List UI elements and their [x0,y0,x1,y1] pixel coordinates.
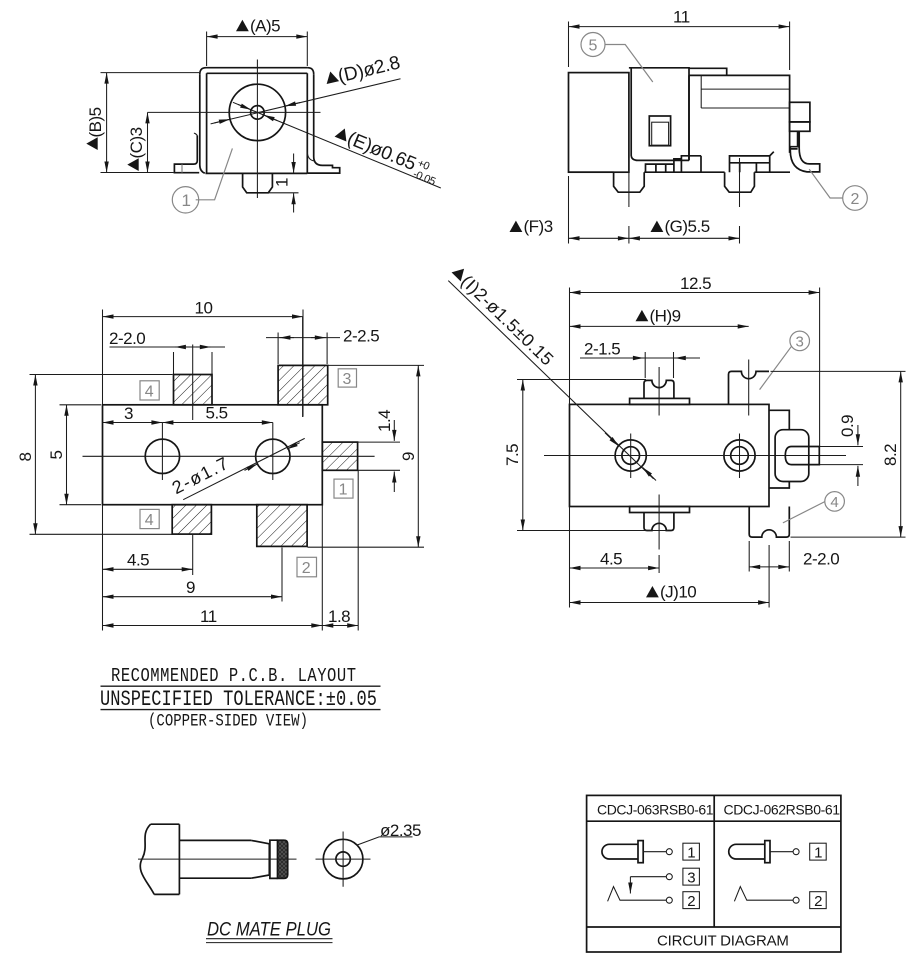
pin length dim arrows [293,154,295,174]
svg-text:UNSPECIFIED TOLERANCE:±0.05: UNSPECIFIED TOLERANCE:±0.05 [100,687,377,712]
VIEW A: front view [86,17,442,214]
right foot centerline [739,158,741,207]
hole right [256,439,290,473]
TABLE: circuit diagram [587,795,841,952]
shell top-left corner [200,68,206,75]
dim 3 line [103,422,163,424]
plug end view crosshair [316,832,371,887]
balloon 4 [825,492,845,512]
dim 11 line [569,26,790,28]
dim 5 line [66,405,68,505]
left flange [174,136,199,173]
leader I label [448,262,558,370]
switch lever [608,887,667,902]
svg-text:2: 2 [814,893,822,910]
svg-text:1: 1 [339,482,348,499]
dim 8.2 ext lines [771,371,906,537]
balloon 5 [581,33,605,57]
dim 7.5 line [522,380,524,531]
svg-text:(J)10: (J)10 [660,583,696,602]
hole left [145,439,179,473]
dim F line [569,237,629,239]
dim 12.5 line [570,292,820,294]
dim A label [236,20,249,31]
VIEW E: dc mate plug [138,821,421,943]
svg-text:2: 2 [851,191,860,208]
svg-text:4: 4 [145,512,154,529]
table footer separator [587,926,841,928]
right terminal 2 circle [793,897,799,903]
dim 7.5 ext lines [517,380,668,531]
dim 2-2.0 line [110,346,226,348]
right metal block [689,75,790,160]
svg-text:CDCJ-063RSB0-61: CDCJ-063RSB0-61 [597,802,714,818]
svg-text:(F)3: (F)3 [524,217,553,236]
left flange top cut [194,133,197,135]
balloon 3 leader [760,346,792,389]
dim 10 line [103,316,304,318]
VIEW D: bottom view [448,262,906,607]
svg-text:5: 5 [47,451,66,460]
left metal shell block [569,73,629,173]
svg-text:3: 3 [124,404,133,423]
wire terminal 3 [630,876,666,878]
terminal 1 box [683,843,700,860]
dim 0.9 ext lines [820,447,863,465]
svg-text:3: 3 [687,869,695,886]
dim 5 ext lines [60,405,102,505]
top-right lug with notch [729,371,770,404]
dim H label [636,310,649,321]
dim F label [510,221,523,232]
svg-text:3: 3 [796,334,804,351]
dim 8 line [34,375,36,535]
svg-text:1: 1 [273,178,292,187]
right terminal 1 box [810,843,827,860]
svg-text:9: 9 [399,452,418,461]
svg-text:10: 10 [195,299,213,318]
right cell: tip contact bar [765,841,770,863]
right terminal 1 circle [793,849,799,855]
dim 0.9 arrows [857,425,859,445]
left cell: center pin symbol [602,844,638,859]
svg-text:5.5: 5.5 [206,404,228,423]
dim 5.5 line [162,422,272,424]
dim 1.4 ext lines [358,442,401,470]
dim G label [651,221,664,232]
switch arm contact arrow [629,877,631,894]
dim 12.5 ext line right [819,288,821,447]
dim 2-1.5 line [580,357,700,359]
dim J ext line right [768,545,770,608]
square label 4 bottom [140,509,159,528]
center pin circle E0.65 [251,106,265,120]
horizontal centerline + dim C extension [148,111,321,113]
dim 7.5 text [503,444,522,466]
plug knurled tip [278,840,288,878]
center pin end rect [790,102,810,122]
dim A extension lines [207,32,308,67]
solder pin below body [243,173,273,192]
VIEW B: side view [510,8,868,244]
svg-text:(H)9: (H)9 [650,307,681,326]
note rule 2 [101,709,381,711]
svg-text:4: 4 [830,494,838,511]
svg-text:(B)5: (B)5 [86,107,105,137]
pin support wall lines [769,410,789,488]
svg-text:4: 4 [145,383,154,400]
leader 2-d1.7 text [169,453,233,499]
svg-text:(C)3: (C)3 [127,127,146,158]
hole right vertical centerline [739,434,741,479]
svg-text:-0.05: -0.05 [411,168,437,188]
dim 2-2.5 ext lines [278,317,327,417]
plug taper [251,840,269,878]
plug tip band [270,840,278,878]
dim 2-2.0 ext lines [749,541,789,572]
body bottom line [569,171,791,173]
dim 2-2.0 arrows [175,346,190,348]
svg-text:CIRCUIT DIAGRAM: CIRCUIT DIAGRAM [657,933,789,950]
hole left vertical centerline [630,434,632,479]
right flange bend [307,157,339,174]
housing switch window inner [652,122,669,145]
svg-text:(I)2-ø1.5±0.15: (I)2-ø1.5±0.15 [457,271,558,370]
hole right outer [724,440,755,471]
svg-text:(A)5: (A)5 [250,17,280,36]
bottom small tab row left [646,156,702,172]
dim 11 line [103,625,323,627]
svg-text:2: 2 [687,893,695,910]
VIEW C: pcb layout [16,299,424,631]
dim B line [106,73,108,173]
svg-text:1: 1 [687,844,695,861]
left solder foot [614,172,645,192]
bent terminal leg [790,131,819,172]
top-left lug centerline [658,367,660,416]
dim B label [86,107,105,150]
jack body inner rectangle [205,73,307,173]
balloon 4 leader [783,502,825,523]
jack body outer shell [200,68,314,174]
dim 9 right text [399,452,418,461]
title underline 2 [206,942,333,944]
square label 3 [338,369,356,387]
dim 8 ext lines [30,375,213,535]
dim J line [570,602,770,604]
pin lower step rect [790,122,810,131]
terminal 3 box [683,868,700,885]
hole left outer [615,440,646,471]
dim 8.2 text [881,444,900,466]
hole right inner [731,447,749,465]
balloon 5 leader [605,45,653,83]
plug centerline [138,858,297,860]
balloon 1 [172,187,198,213]
svg-text:4.5: 4.5 [127,551,149,570]
dim 9 bottom ext line [281,548,283,602]
dim G line [629,237,740,239]
svg-text:2-2.0: 2-2.0 [109,329,145,348]
bottom tab row right [730,152,774,173]
dim 8 text [16,453,35,462]
pad 1 hatched [322,442,357,470]
right terminal 2 box [810,892,827,909]
pad 2 hatched [257,505,307,547]
dim E leader line [233,102,441,188]
balloon 3 [790,331,810,351]
leader 2-d1.7 line [183,438,305,499]
NOTES text block [100,665,381,731]
plug end view outer circle [323,839,363,879]
svg-text:4.5: 4.5 [600,550,622,569]
dim 10 ext lines [103,310,304,417]
holes horizontal centerline [83,455,375,457]
left flange bend mark [181,164,183,172]
svg-text:1.8: 1.8 [328,607,350,626]
dim B extension lines [101,73,200,173]
center pin with round cap [785,447,819,465]
pad 4 top hatched [174,375,213,405]
balloon 2 leader [809,169,843,198]
pcb main outline [103,405,323,505]
svg-text:ø2.35: ø2.35 [380,821,421,840]
terminal 2 box [683,892,700,909]
dim D leader line [211,79,401,124]
svg-text:11: 11 [673,8,690,27]
dim 1.8 line [322,625,358,627]
dim 1.4 arrows [393,420,395,441]
svg-text:2-2.0: 2-2.0 [803,550,839,569]
hole right vertical centerline [272,423,274,481]
dim 11 ext lines [322,471,358,631]
dim 9 bottom line [103,596,283,598]
dim H line [570,325,749,327]
dim 9 right line [417,365,419,547]
table outer border [587,795,841,952]
dim 9 right ext lines [308,365,425,547]
top tab over right block [689,68,727,75]
pin support rounded rect [775,430,809,482]
svg-text:2-1.5: 2-1.5 [584,340,620,359]
shell top-right corner [308,68,314,75]
right block inner lines [701,75,789,108]
dim E arrows [238,104,251,109]
pad 4 bottom hatched [172,505,211,534]
dim 4.5 ext line [103,506,193,631]
dim 5 text [47,451,66,460]
svg-text:9: 9 [186,578,195,597]
bottom-left lug base bar [630,507,690,513]
plug barrel [179,824,251,894]
right flange inner bend [307,152,314,162]
svg-text:11: 11 [200,607,217,626]
square label 2 [297,557,317,577]
dim 11 extension lines [569,22,790,71]
dim J label [646,586,659,597]
dim 8.2 line [900,371,902,537]
wire pin to terminal 1 [643,851,666,853]
dim 1.4 text [375,410,394,432]
svg-text:8: 8 [16,453,35,462]
dim A line [207,36,308,38]
pin length label "1" [273,178,292,187]
square label 4 top [140,381,159,400]
svg-text:2-2.5: 2-2.5 [343,327,379,346]
svg-text:5: 5 [589,38,598,55]
dim 0.9 text [838,415,857,437]
dim 4.5 ext line [658,555,660,573]
dim 2-2.0 top ext lines [174,345,213,421]
left foot centerline [628,158,630,207]
balloon 2 [843,186,868,211]
right cell: center pin symbol [729,844,765,859]
svg-text:CDCJ-062RSB0-61: CDCJ-062RSB0-61 [724,802,841,818]
dim C label [127,127,146,171]
leader I line [448,281,653,479]
top-left lug base bar [630,398,690,404]
dim F/G extension lines [569,176,740,244]
plug handle with break line [140,824,179,894]
dim 4.5 line [570,567,660,569]
barrel outer circle D2.8 [229,84,285,140]
svg-text:(E)ø0.65: (E)ø0.65 [344,128,419,175]
square label 1 [334,479,353,498]
right wire pin to terminal 1 [770,851,793,853]
title underline 1 [206,938,333,940]
dim D arrows [214,119,230,123]
bottom-right lug with notch [749,507,789,538]
dim 4.5 line [103,568,193,570]
dim C line [147,112,149,172]
svg-text:12.5: 12.5 [680,274,711,293]
svg-text:8.2: 8.2 [881,444,900,466]
balloon 1 leader [196,148,233,199]
housing switch window outer [649,116,670,146]
right solder foot [725,172,755,192]
left cell: tip contact bar [638,841,643,863]
leader 2-d1.7 arrows [245,464,258,470]
terminal 1 circle [666,849,672,855]
svg-text:2: 2 [302,560,311,577]
top-right lug centerline [748,360,750,416]
dia 2.35 leader [357,837,412,845]
table column divider [713,795,715,927]
dim H ext line left [569,288,571,608]
dim D label [323,52,402,90]
svg-text:1: 1 [814,844,822,861]
terminal 3 circle [666,874,672,880]
hole left inner [622,447,640,465]
svg-text:7.5: 7.5 [503,444,522,466]
dim 2-2.5 arrows [279,337,294,339]
dim 2-2.5 line [266,337,340,339]
note rule 1 [101,685,381,687]
svg-text:1: 1 [182,191,191,210]
svg-text:3: 3 [343,371,352,388]
dim E label [331,123,442,188]
top-left lug tab with notch [644,380,674,398]
vertical centerline [256,60,258,199]
plug end view inner circle [336,852,350,866]
hole left vertical centerline [161,423,163,481]
svg-text:DC MATE PLUG: DC MATE PLUG [207,920,331,941]
pin length dim "1" extension [269,192,299,194]
bottom-left lug tab with notch [644,513,674,531]
svg-text:RECOMMENDED P.C.B. LAYOUT: RECOMMENDED P.C.B. LAYOUT [111,665,356,687]
svg-text:(G)5.5: (G)5.5 [665,217,710,236]
svg-text:0.9: 0.9 [838,415,857,437]
svg-text:1.4: 1.4 [375,410,394,432]
svg-text:(D)ø2.8: (D)ø2.8 [336,52,402,87]
holes horizontal centerline [544,455,846,457]
svg-text:(COPPER-SIDED VIEW): (COPPER-SIDED VIEW) [148,711,308,731]
pad 3 hatched [278,365,328,404]
dim 2-1.5 ext lines [645,352,673,378]
plastic housing center block [629,68,689,161]
body outline rect [570,404,770,506]
table header separator [587,820,841,822]
right switch lever [734,887,793,902]
bottom-left lug centerline [658,495,660,550]
leader I arrows [605,433,619,447]
dim 2-1.5 arrows [631,357,644,359]
terminal 2 circle [666,897,672,903]
dim 2-2.0 line [749,566,789,568]
